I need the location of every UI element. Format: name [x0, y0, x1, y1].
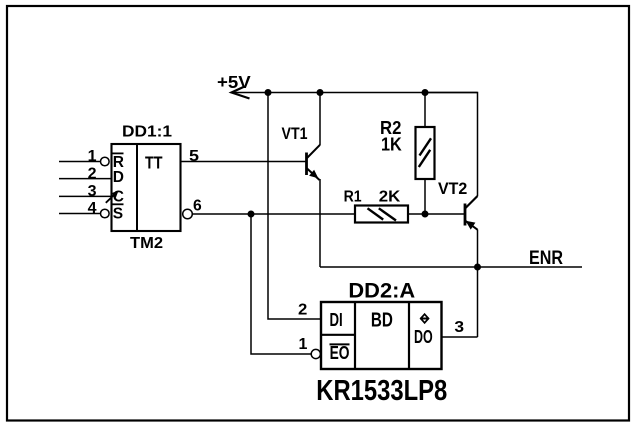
wire VT1 collector: [319, 93, 321, 146]
open-collector diamond symbol: [420, 314, 429, 323]
svg-text:EO: EO: [330, 343, 350, 363]
wire R1 to VT2 base: [408, 213, 465, 215]
svg-text:BD: BD: [371, 310, 393, 332]
wire input pin 3: [59, 195, 112, 197]
svg-text:S: S: [113, 206, 123, 223]
junction ENR/VT2 emitter: [474, 264, 481, 271]
svg-text:DD2:A: DD2:A: [348, 278, 415, 302]
svg-text:ENR: ENR: [529, 247, 563, 269]
junction at pin6 wire: [248, 211, 255, 218]
svg-text:DO: DO: [414, 327, 433, 347]
svg-text:2K: 2K: [379, 189, 401, 206]
junction rail/R2: [422, 89, 429, 96]
svg-text:D: D: [113, 169, 124, 186]
inversion circle pin 6: [183, 209, 193, 219]
wire rail to DD2 pin 2: [268, 93, 321, 320]
pin label S (inverted): [113, 204, 124, 222]
svg-text:C: C: [113, 189, 124, 206]
svg-text:2: 2: [88, 165, 97, 182]
wire input pin 2: [59, 178, 112, 180]
wire pin 6 to R1: [192, 213, 355, 215]
wire VT2 collector: [425, 93, 478, 197]
svg-text:2: 2: [298, 302, 307, 319]
resistor R2: [416, 93, 435, 215]
svg-text:1K: 1K: [381, 134, 402, 155]
svg-text:1: 1: [299, 336, 308, 353]
svg-text:TM2: TM2: [130, 235, 163, 252]
inversion circle pin 4: [101, 209, 110, 218]
svg-text:KR1533LP8: KR1533LP8: [316, 375, 447, 407]
svg-text:1: 1: [88, 148, 97, 165]
junction rail/pin2 drop: [265, 89, 272, 96]
svg-text:6: 6: [193, 198, 202, 215]
transistor VT1: [307, 145, 321, 180]
wire VT2 emitter down: [477, 230, 479, 338]
svg-text:3: 3: [454, 319, 464, 336]
svg-text:DD1:1: DD1:1: [122, 124, 172, 141]
wire DD2 pin 3: [442, 336, 478, 338]
inversion circle DD2 pin 1: [311, 349, 320, 358]
transistor VT2: [465, 196, 478, 230]
+5V arrow: [232, 87, 250, 99]
wire vertical to DD2 pin 1: [251, 214, 311, 354]
svg-text:+5V: +5V: [217, 72, 251, 92]
wire VT1 emitter down: [319, 179, 321, 267]
wire pin 5 to VT1 base: [181, 161, 307, 163]
wire +5V rail: [232, 92, 478, 94]
svg-text:3: 3: [88, 183, 97, 200]
wire input pin 1: [59, 161, 100, 163]
inversion circle pin 1: [101, 157, 110, 166]
junction rail/VT1 collector: [317, 89, 324, 96]
svg-text:VT1: VT1: [282, 124, 308, 143]
wire input pin 4: [59, 213, 100, 215]
dynamic input arrow at C: [106, 191, 119, 203]
junction R1/R2/VT2: [422, 211, 429, 218]
wire ENR: [320, 266, 582, 268]
resistor R1: [355, 206, 408, 223]
svg-text:VT2: VT2: [438, 179, 467, 198]
svg-text:DI: DI: [330, 310, 343, 330]
pin label R (inverted): [113, 153, 124, 170]
buffer DD2:A: [321, 302, 442, 369]
svg-text:R1: R1: [344, 189, 362, 206]
flip-flop DD1:1: [112, 144, 181, 231]
svg-text:TT: TT: [145, 153, 163, 173]
svg-text:4: 4: [88, 200, 97, 217]
label EO (inverted): [330, 343, 350, 363]
